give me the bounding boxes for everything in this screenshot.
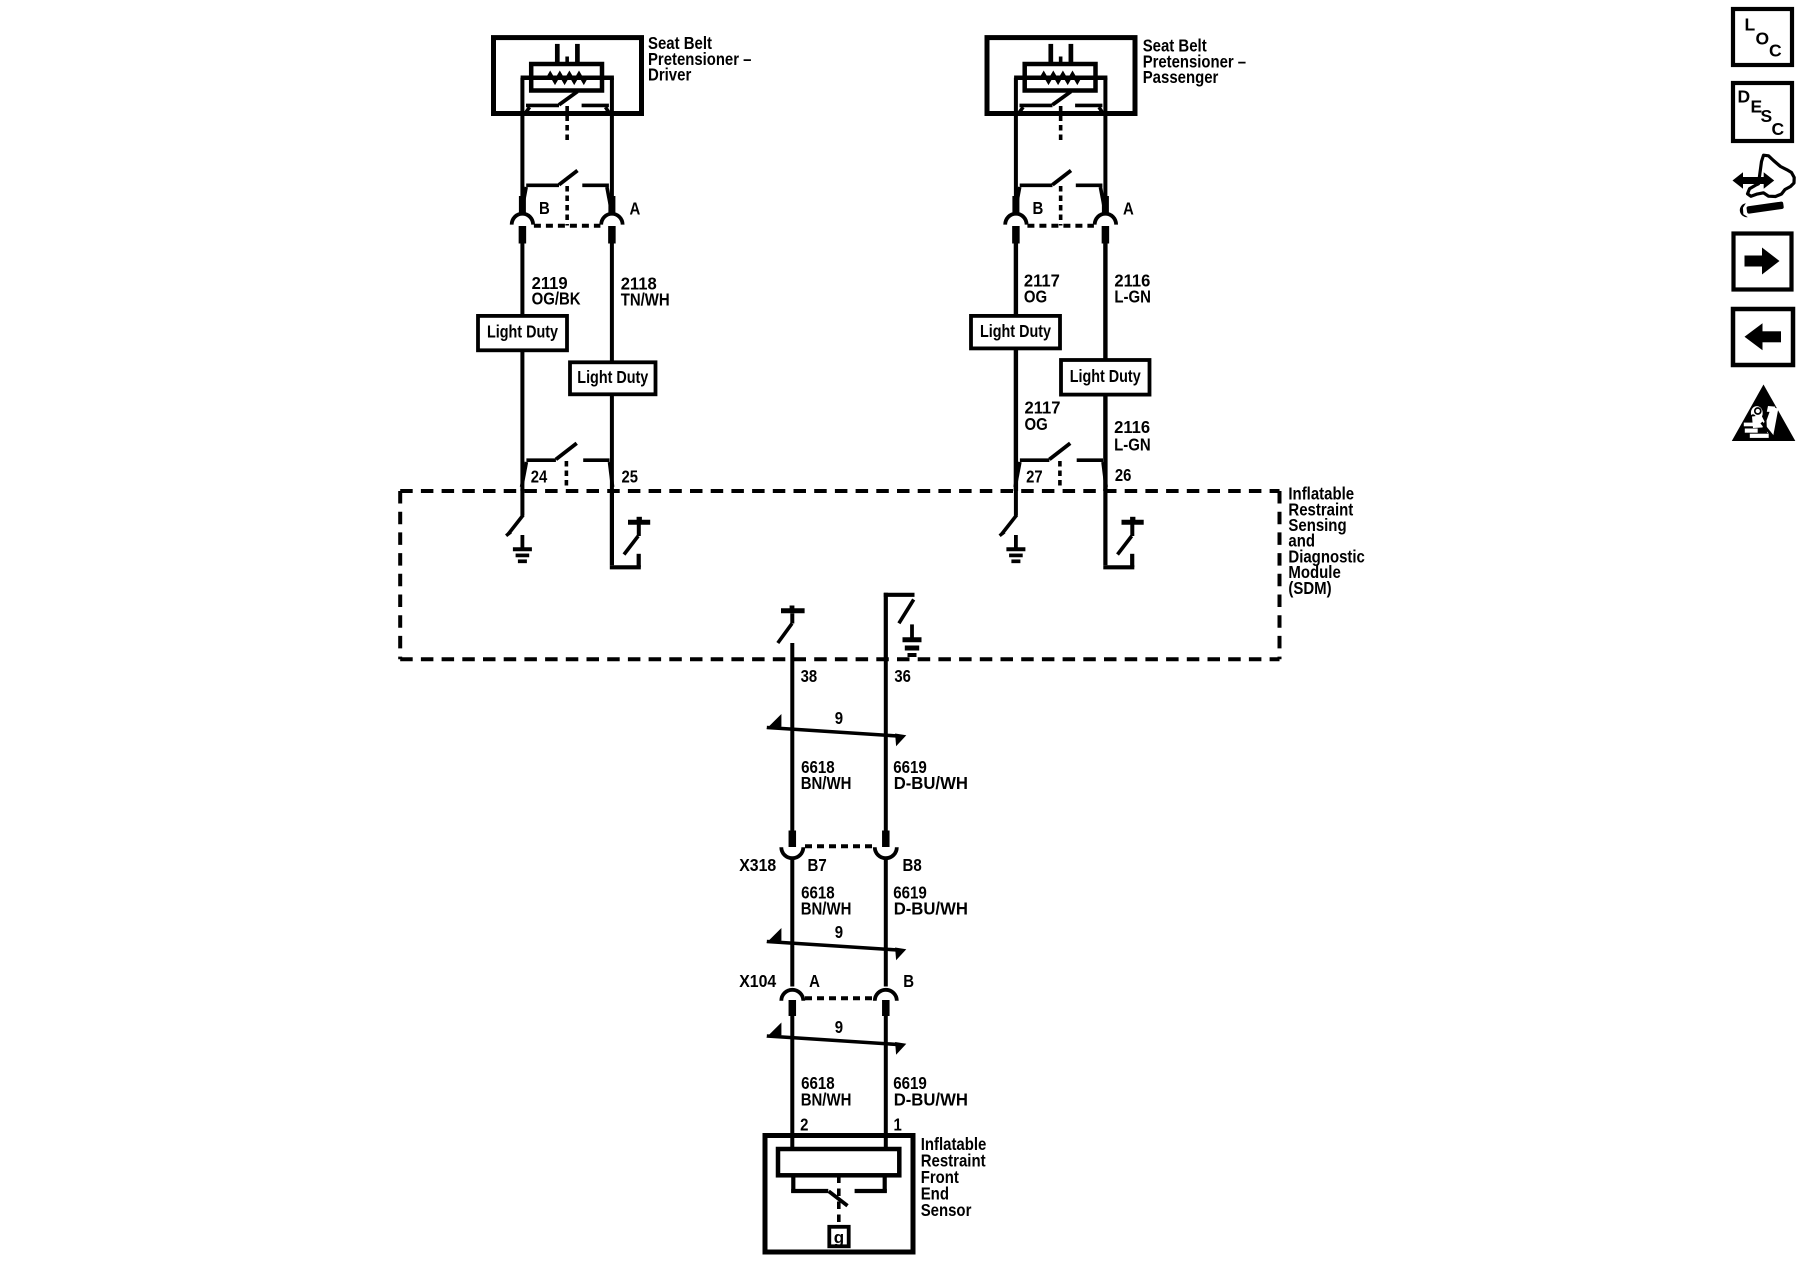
wire: left lead Passenger xyxy=(1014,78,1018,215)
SDM internal T-bar contact pin 25 xyxy=(637,525,641,537)
squib connector body Passenger xyxy=(1025,64,1096,91)
harness stub below B Passenger xyxy=(1012,226,1020,244)
ground symbol pin 27 xyxy=(1014,535,1018,549)
sensor g mass box xyxy=(829,1227,848,1247)
wire 6618 BN/WH (X104 to sensor pin 2) xyxy=(790,1016,794,1149)
ground symbol pin 36 xyxy=(910,624,914,637)
wire segment below passenger left Light Duty xyxy=(1014,348,1018,491)
svg-text:A: A xyxy=(809,971,820,991)
shorting-bar connector top edge Passenger xyxy=(1014,76,1107,81)
wire 6618 BN/WH (SDM 38 to X318 B7) xyxy=(790,643,794,832)
sensor contact right xyxy=(883,1175,887,1193)
svg-text:36: 36 xyxy=(894,666,911,686)
sensor dashed actuator link xyxy=(837,1176,841,1227)
dashed actuator link upper Driver xyxy=(565,106,569,144)
connector cap terminal B Driver xyxy=(512,214,533,225)
component box: Seat Belt Pretensioner Driver xyxy=(494,38,642,114)
wire segment below driver left Light Duty xyxy=(520,350,524,491)
SDM internal T-bar contact pin 38 xyxy=(781,608,805,613)
double arrow xyxy=(1741,177,1766,184)
SDM internal blade pin 26 xyxy=(1118,536,1132,555)
svg-text:9: 9 xyxy=(835,1017,844,1037)
Light Duty label box driver right xyxy=(570,362,656,394)
connector X104 stub A xyxy=(789,1000,797,1016)
SDM internal L-bend pin 25 xyxy=(610,565,641,569)
svg-text:g: g xyxy=(834,1228,844,1247)
svg-text:Passenger: Passenger xyxy=(1143,67,1219,87)
svg-text:Light Duty: Light Duty xyxy=(487,322,558,342)
wire 6619 D-BU/WH (SDM 36 to X318 B8) xyxy=(884,659,888,831)
svg-text:26: 26 xyxy=(1115,465,1132,485)
terminal stub above A Driver xyxy=(608,196,615,215)
svg-text:B: B xyxy=(903,971,914,991)
dashed connector line B-A Passenger xyxy=(1027,224,1094,228)
connector X318 stub B8 xyxy=(882,831,890,848)
svg-text:C: C xyxy=(1772,119,1785,139)
shorting clip switch at connector Driver xyxy=(526,184,559,188)
dashed connector line X318 xyxy=(805,844,874,848)
wire: right lead Driver xyxy=(610,78,614,215)
svg-text:Driver: Driver xyxy=(648,65,691,85)
shorting clip switch inside box Driver xyxy=(526,104,559,108)
connector X318 cup B7 xyxy=(781,847,803,858)
svg-text:L-GN: L-GN xyxy=(1114,434,1151,454)
connector X318 stub B7 xyxy=(789,831,797,848)
svg-text:24: 24 xyxy=(531,467,548,487)
squib resistor element Passenger xyxy=(1041,74,1079,82)
connector X104 cap B xyxy=(875,990,897,1001)
SDM internal blade pin 36 xyxy=(899,600,914,624)
SDM internal wire pin 26 xyxy=(1103,489,1107,565)
squib initiator pins Passenger xyxy=(1048,44,1053,66)
Light Duty label box driver left xyxy=(478,316,567,350)
dashed actuator link lower Passenger xyxy=(1059,186,1063,226)
svg-text:9: 9 xyxy=(835,922,844,942)
svg-text:X318: X318 xyxy=(739,855,776,875)
dashed link between pins Driver xyxy=(565,57,569,65)
SRS caution triangle xyxy=(1732,385,1796,442)
dashed connector line B-A Driver xyxy=(534,224,601,228)
SDM internal wire pin 25 xyxy=(610,489,614,565)
svg-text:9: 9 xyxy=(835,708,844,728)
svg-text:Light Duty: Light Duty xyxy=(577,367,648,387)
svg-text:Light Duty: Light Duty xyxy=(980,321,1051,341)
SDM internal blade pin 38 xyxy=(778,624,792,644)
wrench xyxy=(1739,198,1785,218)
wire: right lead Passenger xyxy=(1103,78,1107,215)
sensor element rectangle xyxy=(778,1149,899,1175)
dashed link between pins Passenger xyxy=(1059,57,1063,65)
dashed connector line X104 xyxy=(805,996,874,1000)
svg-text:O: O xyxy=(1756,29,1770,49)
sensor switch blade xyxy=(829,1191,848,1206)
svg-text:BN/WH: BN/WH xyxy=(801,773,852,793)
SDM deployment loop switch passenger (pins 27/26) xyxy=(1020,458,1050,462)
svg-text:2: 2 xyxy=(800,1115,809,1135)
dashed actuator link at SDM pins driver (pins 24/25) xyxy=(565,461,569,489)
svg-text:L-GN: L-GN xyxy=(1114,286,1151,306)
sensor contact left xyxy=(791,1175,795,1193)
SDM internal wire pin 24 xyxy=(520,489,524,516)
svg-text:D-BU/WH: D-BU/WH xyxy=(894,773,968,793)
harness stub below A Passenger xyxy=(1102,226,1110,244)
wire: left lead Driver xyxy=(520,78,524,215)
svg-text:A: A xyxy=(630,199,641,219)
connector X318 cup B8 xyxy=(875,847,897,858)
dashed actuator link lower Driver xyxy=(565,186,569,226)
twisted pair marker 2 xyxy=(766,928,906,960)
dashed actuator link upper Passenger xyxy=(1059,106,1063,144)
svg-text:C: C xyxy=(1769,41,1782,61)
svg-text:38: 38 xyxy=(801,666,818,686)
icon box forward arrow xyxy=(1734,234,1792,290)
SDM module dashed border xyxy=(400,489,1279,493)
shorting clip switch inside box Passenger xyxy=(1020,104,1053,108)
SDM deployment loop switch driver (pins 24/25) xyxy=(526,458,556,462)
SDM internal L-bend pin 26 xyxy=(1103,565,1134,569)
svg-text:X104: X104 xyxy=(739,971,776,991)
squib connector body Driver xyxy=(531,64,602,91)
schematic navigation icon outline xyxy=(1748,155,1795,196)
SDM internal bracket pin 36 xyxy=(884,593,888,660)
terminal stub above B Passenger xyxy=(1012,196,1019,215)
wire segment below driver right Light Duty xyxy=(610,394,614,491)
svg-text:A: A xyxy=(1123,199,1134,219)
Light Duty label box passenger right xyxy=(1061,360,1150,395)
svg-text:S: S xyxy=(1761,106,1773,126)
twisted pair marker 3 xyxy=(766,1023,906,1055)
svg-text:OG: OG xyxy=(1025,414,1048,434)
squib initiator pins Driver xyxy=(555,44,560,66)
shorting-bar connector top edge Driver xyxy=(521,76,614,81)
terminal stub above B Driver xyxy=(519,196,526,215)
connector cap terminal A Driver xyxy=(601,214,622,225)
svg-text:Light Duty: Light Duty xyxy=(1070,366,1141,386)
icon box LOC xyxy=(1733,9,1792,65)
wire 6618 BN/WH (X318 to X104) xyxy=(790,859,794,987)
SDM internal open switch blade pin 24 xyxy=(508,515,523,534)
wire 6619 D-BU/WH (X104 to sensor pin 1) xyxy=(884,1016,888,1149)
shorting clip switch at connector Passenger xyxy=(1020,184,1053,188)
ground symbol pin 24 xyxy=(521,535,525,549)
svg-text:B7: B7 xyxy=(808,855,827,875)
wire 2118 TN/WH (driver A to SDM pin 25) xyxy=(610,244,614,363)
svg-text:Sensor: Sensor xyxy=(921,1200,972,1220)
svg-text:D: D xyxy=(1738,86,1751,106)
svg-text:(SDM): (SDM) xyxy=(1288,578,1331,598)
terminal stub above A Passenger xyxy=(1102,196,1109,215)
Light Duty label box passenger left xyxy=(971,316,1060,349)
component box: Seat Belt Pretensioner Passenger xyxy=(987,38,1135,114)
svg-text:B8: B8 xyxy=(903,855,922,875)
SDM internal wire pin 27 xyxy=(1014,489,1018,516)
harness stub below B Driver xyxy=(519,226,527,244)
component box: Inflatable Restraint Front End Sensor xyxy=(765,1136,913,1253)
connector cap terminal B Passenger xyxy=(1005,214,1026,225)
svg-text:D-BU/WH: D-BU/WH xyxy=(894,899,968,919)
connector X104 cap A xyxy=(781,990,803,1001)
svg-text:TN/WH: TN/WH xyxy=(621,290,670,310)
svg-text:L: L xyxy=(1745,15,1756,35)
svg-text:OG/BK: OG/BK xyxy=(532,289,581,309)
svg-text:D-BU/WH: D-BU/WH xyxy=(894,1089,968,1109)
wire 2117 OG (passenger B to SDM pin 27) xyxy=(1014,244,1018,316)
svg-text:B: B xyxy=(539,198,550,218)
SDM internal T-bar contact pin 26 xyxy=(1130,525,1134,537)
SDM internal blade pin 25 xyxy=(624,536,638,555)
icon box back arrow xyxy=(1733,309,1793,365)
svg-text:25: 25 xyxy=(622,467,639,487)
svg-text:27: 27 xyxy=(1026,467,1043,487)
dashed actuator link at SDM pins passenger (pins 27/26) xyxy=(1058,461,1062,489)
connector cap terminal A Passenger xyxy=(1095,214,1116,225)
svg-text:BN/WH: BN/WH xyxy=(801,1089,852,1109)
harness stub below A Driver xyxy=(608,226,616,244)
svg-text:1: 1 xyxy=(894,1115,903,1135)
wire segment below passenger right Light Duty xyxy=(1103,395,1107,491)
svg-text:B: B xyxy=(1033,198,1044,218)
squib resistor element Driver xyxy=(548,74,586,82)
connector X104 stub B xyxy=(882,1000,890,1016)
wire 2119 OG/BK (driver B to SDM pin 24) xyxy=(520,244,524,316)
svg-text:BN/WH: BN/WH xyxy=(801,899,852,919)
SDM internal open switch blade pin 27 xyxy=(1002,515,1017,534)
svg-text:OG: OG xyxy=(1024,286,1047,306)
wire 2116 L-GN (passenger A to SDM pin 26) xyxy=(1103,244,1107,361)
icon box DESC xyxy=(1733,83,1792,141)
wire 6619 D-BU/WH (X318 to X104) xyxy=(884,859,888,987)
